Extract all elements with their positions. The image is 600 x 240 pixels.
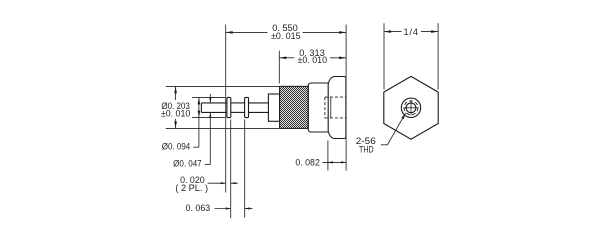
- shaft between flanges: [231, 103, 245, 113]
- washer / shoulder section: [308, 83, 328, 132]
- 0.313 arrows: [279, 57, 286, 60]
- dimension line 0.082: [323, 161, 347, 163]
- extension line: flange1 right face (0.020 right / 0.063 left): [230, 120, 232, 219]
- pin tail shaft 0.047 dia (tip to flange1): [201, 103, 227, 113]
- end view thread major dia (dashed circle): [404, 101, 418, 115]
- dimension stem 0.094 with leader to text: [198, 97, 200, 147]
- end view hexagon: [384, 76, 438, 139]
- extension line: flange2 left face (0.063 right): [244, 120, 246, 218]
- 2-56 leader arrow: [401, 113, 405, 119]
- 0.020 arrows: [221, 182, 226, 184]
- leader 2-56 THD: [381, 113, 406, 145]
- dimension stem 0.203: [175, 86, 177, 100]
- hidden tapped hole (dashed): [325, 97, 346, 118]
- extension line: knurl left (0.313 left): [278, 51, 280, 84]
- 0.094 arrows: [198, 97, 201, 104]
- 0.047 arrows: [209, 97, 211, 103]
- centerline cross: [403, 100, 418, 115]
- svg-text:0. 082: 0. 082: [295, 158, 320, 168]
- dimension stem 0.047 with leader to text: [209, 94, 211, 103]
- flange 2 (0.094 dia, 0.020 thick): [245, 97, 249, 117]
- dimension line 0.550: [226, 31, 268, 33]
- svg-text:1/4: 1/4: [403, 27, 418, 37]
- svg-text:THD: THD: [359, 144, 374, 154]
- svg-text:Ø0. 047: Ø0. 047: [173, 159, 202, 169]
- svg-text:( 2 PL. ): ( 2 PL. ): [175, 183, 208, 193]
- hex nut side view: [328, 77, 346, 139]
- 0.082 arrows: [328, 161, 333, 163]
- extension lines 0.203 (knurl OD): [166, 85, 280, 87]
- dimension line 0.063: [215, 208, 231, 210]
- end view hole minor dia: [406, 103, 416, 113]
- dimension line 1/4: [384, 31, 402, 33]
- arrowheads: [174, 30, 438, 209]
- collar before knurl: [268, 94, 279, 121]
- svg-text:0. 063: 0. 063: [186, 203, 211, 213]
- 0.203 arrows: [174, 86, 177, 93]
- end view chamfer circle: [401, 98, 420, 117]
- svg-text:±0. 010: ±0. 010: [298, 55, 328, 65]
- 0.063 arrows: [226, 207, 231, 209]
- dimension arrows 0.020: [208, 182, 226, 184]
- extension lines 0.094 (flange OD): [192, 96, 225, 98]
- svg-text:±0. 015: ±0. 015: [271, 31, 301, 41]
- svg-text:Ø0. 094: Ø0. 094: [162, 141, 191, 151]
- hex chamfer edge line: [330, 97, 332, 118]
- extension line: hex left face (0.082 left): [327, 141, 329, 171]
- extension lines 1/4: [383, 23, 385, 89]
- flange 1 (0.094 dia, 0.020 thick): [227, 97, 231, 117]
- 1/4 arrows: [384, 30, 391, 33]
- svg-text:±0. 010: ±0. 010: [161, 109, 191, 119]
- shaft from flange2 to collar: [249, 103, 269, 113]
- extension line: flange1 left face (0.550 left / 0.020 left): [225, 25, 227, 193]
- dimension line 0.313: [279, 57, 294, 59]
- 0.550 arrows: [226, 31, 233, 34]
- extension line: hex right face (0.550/0.313/0.082 right): [345, 25, 347, 171]
- knurled body 0.203 dia: [280, 86, 309, 128]
